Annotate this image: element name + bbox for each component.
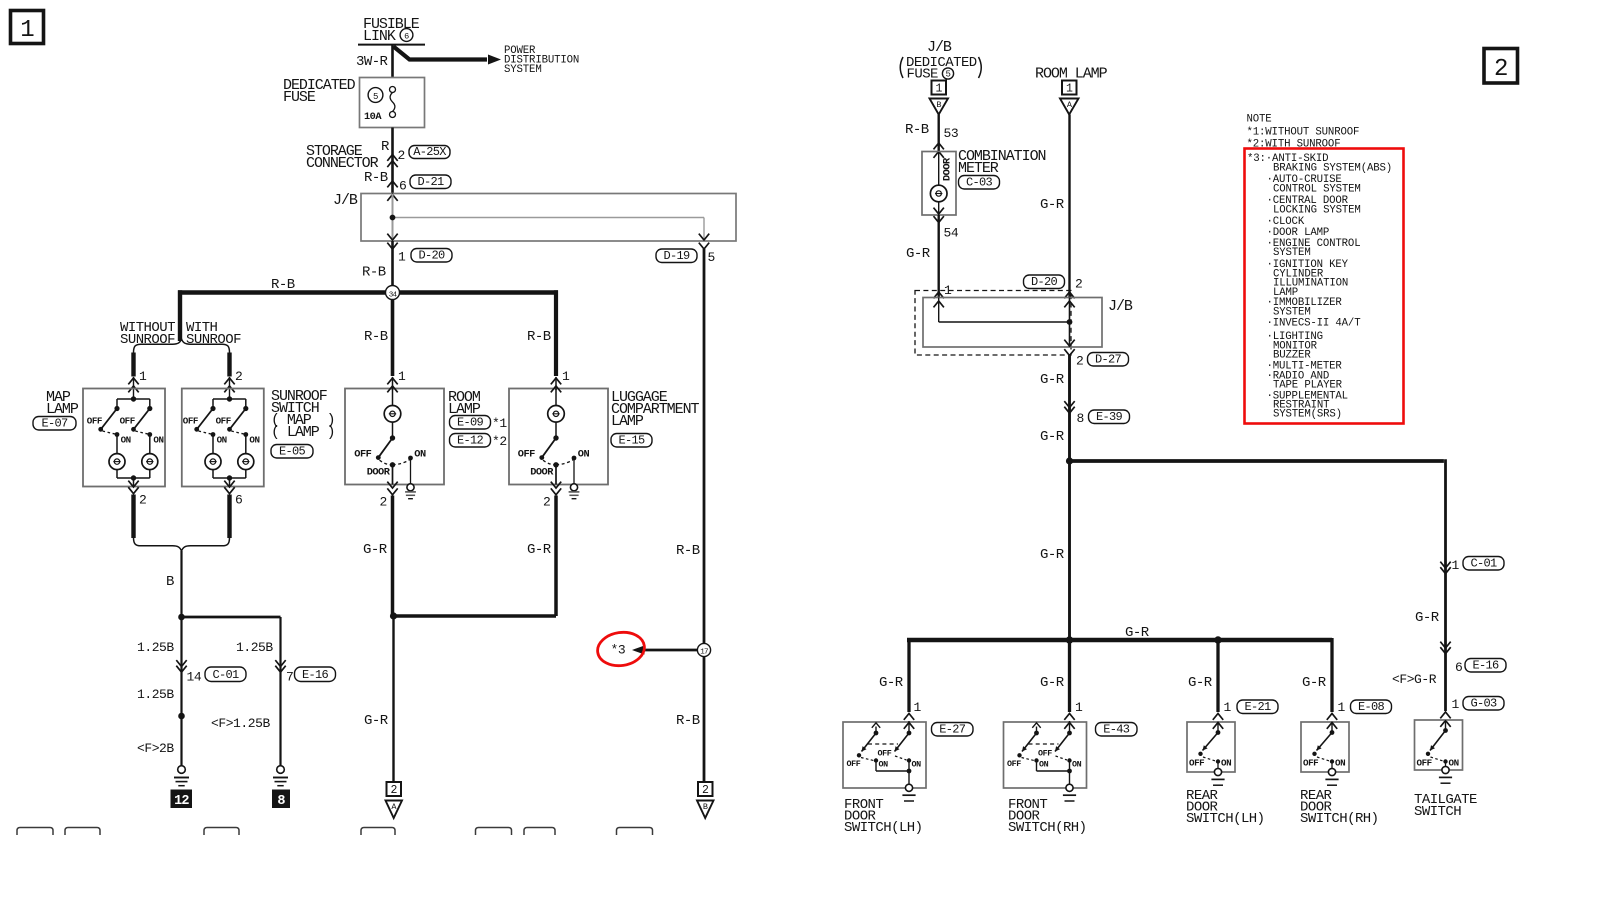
svg-text:SWITCH(LH): SWITCH(LH) bbox=[844, 820, 923, 836]
wire label F 1.25B bbox=[211, 716, 270, 731]
connector E-08 capsule bbox=[1351, 700, 1392, 714]
wire G-R to tailgate bbox=[1070, 459, 1446, 711]
svg-text:1: 1 bbox=[935, 83, 942, 96]
fuse element bbox=[390, 87, 396, 118]
svg-text:NOTE: NOTE bbox=[1247, 114, 1272, 126]
room lamp pin 2 bbox=[380, 495, 387, 510]
svg-text:G-R: G-R bbox=[1040, 197, 1065, 213]
ground point tag 12 bbox=[171, 790, 193, 810]
junction dot front RH bbox=[1066, 636, 1073, 643]
tailgate entry chevrons bbox=[1440, 712, 1450, 727]
ground point tag 8 bbox=[272, 790, 290, 810]
svg-text:J/B: J/B bbox=[927, 39, 952, 56]
svg-text:ON: ON bbox=[249, 435, 259, 446]
meter entry chevrons bbox=[934, 143, 944, 158]
svg-text:B: B bbox=[166, 574, 174, 590]
svg-text:2: 2 bbox=[380, 495, 387, 510]
svg-text:SYSTEM(SRS): SYSTEM(SRS) bbox=[1273, 408, 1342, 420]
room lamp label bbox=[448, 389, 481, 418]
svg-text:J/B: J/B bbox=[1108, 298, 1133, 315]
wire label G-R rear LH bbox=[1188, 675, 1213, 691]
svg-text:34: 34 bbox=[389, 291, 398, 299]
stub wire to map lamp bbox=[131, 353, 135, 377]
rear door LH pin 1 bbox=[1224, 700, 1232, 715]
svg-text:1: 1 bbox=[20, 17, 34, 44]
wire G-R room lamp down bbox=[391, 496, 395, 617]
svg-text:R-B: R-B bbox=[364, 329, 388, 345]
svg-text:DOOR: DOOR bbox=[942, 157, 954, 181]
partial connector box e bbox=[476, 828, 512, 836]
svg-text:SUNROOF: SUNROOF bbox=[186, 332, 241, 348]
connector E-43 capsule bbox=[1096, 723, 1138, 737]
wire label G-R 3 bbox=[1040, 547, 1065, 563]
inter-sheet tag 2 B bbox=[697, 782, 714, 818]
connector G-03 pin 1 bbox=[1452, 697, 1505, 713]
svg-text:G-R: G-R bbox=[363, 542, 388, 558]
inter-sheet tag 2 A bbox=[386, 782, 403, 818]
map lamp switches and bulbs bbox=[87, 396, 164, 486]
wire R-B junction17 down bbox=[703, 657, 706, 781]
svg-text:1: 1 bbox=[1338, 700, 1346, 715]
svg-text:2: 2 bbox=[390, 784, 397, 797]
room lamp pin 1 bbox=[398, 369, 406, 384]
fusible link 6 label bbox=[358, 16, 425, 45]
svg-text:54: 54 bbox=[944, 226, 959, 241]
luggage compartment lamp box bbox=[509, 389, 608, 485]
svg-text:<F>1.25B: <F>1.25B bbox=[211, 716, 270, 731]
svg-text:ON: ON bbox=[121, 435, 131, 446]
note star3 list bbox=[1247, 153, 1392, 420]
room lamp feed label bbox=[1035, 66, 1108, 83]
JB right right entry chevrons bbox=[1064, 292, 1074, 307]
ground left bbox=[174, 766, 189, 786]
pin 53 bbox=[944, 126, 959, 141]
partial connector box g bbox=[617, 828, 653, 836]
svg-text:5: 5 bbox=[373, 92, 378, 102]
svg-text:B: B bbox=[936, 100, 941, 110]
front door switch RH contacts bbox=[1007, 723, 1082, 801]
wire label G-R feed bbox=[1040, 197, 1065, 213]
svg-text:G-R: G-R bbox=[1188, 675, 1213, 691]
svg-text:A-25X: A-25X bbox=[413, 145, 446, 159]
front door switch RH box bbox=[1004, 722, 1087, 788]
connector D-27 pin 2 bbox=[1064, 340, 1128, 369]
svg-text:*1: *1 bbox=[492, 416, 507, 431]
ground right bbox=[273, 766, 288, 786]
svg-text:LAMP: LAMP bbox=[611, 413, 644, 430]
svg-text:5: 5 bbox=[708, 250, 715, 265]
without sunroof label bbox=[120, 320, 175, 348]
map lamp box bbox=[83, 389, 165, 487]
svg-text:BRAKING SYSTEM(ABS): BRAKING SYSTEM(ABS) bbox=[1273, 162, 1392, 174]
svg-text:<F>2B: <F>2B bbox=[137, 741, 174, 756]
triangle A from sheet bbox=[1060, 99, 1079, 115]
svg-text:G-R: G-R bbox=[1040, 675, 1065, 691]
sunroof switch switches and bulbs bbox=[183, 396, 260, 486]
junction dot rear LH bbox=[1214, 636, 1221, 643]
svg-text:10A: 10A bbox=[364, 111, 382, 123]
rear door switch LH label bbox=[1186, 788, 1265, 827]
rear door switch LH contacts bbox=[1189, 722, 1231, 785]
svg-text:OFF: OFF bbox=[878, 749, 892, 759]
J/B junction block box left bbox=[361, 194, 736, 242]
rear door switch RH label bbox=[1300, 788, 1379, 827]
svg-text:OFF: OFF bbox=[120, 416, 135, 427]
svg-text:1: 1 bbox=[914, 700, 922, 715]
svg-text:R-B: R-B bbox=[364, 170, 388, 186]
pin 1 map lamp bbox=[139, 369, 147, 384]
J/B left internal wiring bbox=[387, 194, 704, 241]
pin 54 bbox=[944, 226, 959, 241]
svg-text:G-R: G-R bbox=[879, 675, 904, 691]
entry chevrons map lamp bbox=[128, 377, 138, 399]
svg-text:ON: ON bbox=[912, 760, 922, 770]
svg-text:SWITCH(RH): SWITCH(RH) bbox=[1300, 811, 1379, 827]
wire label 1.25B left bbox=[137, 640, 174, 655]
combination meter internals bbox=[930, 152, 953, 215]
svg-text:E-05: E-05 bbox=[279, 445, 306, 459]
connector E-21 capsule bbox=[1237, 700, 1278, 714]
svg-text:*1:WITHOUT SUNROOF: *1:WITHOUT SUNROOF bbox=[1247, 127, 1360, 139]
svg-text:1: 1 bbox=[1075, 700, 1083, 715]
room lamp entry chevrons bbox=[387, 377, 397, 392]
note line 1 bbox=[1247, 127, 1360, 139]
wire B bbox=[180, 551, 182, 617]
wire D-20 to junction 34 bbox=[391, 241, 394, 286]
svg-text:C-03: C-03 bbox=[966, 176, 993, 190]
svg-text:ON: ON bbox=[1039, 760, 1049, 770]
stub below map lamp bbox=[131, 495, 135, 539]
svg-text:G-R: G-R bbox=[906, 246, 931, 262]
map lamp exit chevrons bbox=[128, 481, 146, 508]
svg-text:8: 8 bbox=[1077, 411, 1084, 426]
J/B right internal wiring bbox=[939, 298, 1073, 348]
connector A-25X pin 2 bbox=[387, 145, 450, 167]
svg-text:R: R bbox=[381, 139, 390, 155]
svg-text:D-19: D-19 bbox=[663, 249, 690, 263]
svg-text:ON: ON bbox=[1449, 758, 1459, 769]
svg-text:2: 2 bbox=[398, 148, 405, 163]
svg-text:ON: ON bbox=[414, 448, 426, 460]
svg-text:OFF: OFF bbox=[1038, 749, 1052, 759]
tailgate switch contacts bbox=[1417, 720, 1459, 783]
svg-text:2: 2 bbox=[139, 493, 146, 508]
wire G-R luggage down bbox=[554, 496, 558, 617]
svg-text:E-27: E-27 bbox=[939, 723, 966, 737]
svg-text:7: 7 bbox=[286, 670, 293, 685]
svg-text:SYSTEM: SYSTEM bbox=[1273, 306, 1311, 318]
wire label G-R front LH bbox=[879, 675, 904, 691]
svg-text:OFF: OFF bbox=[183, 416, 198, 427]
note reference *3 bbox=[611, 643, 626, 658]
luggage lamp label bbox=[611, 389, 700, 430]
J/B label left bbox=[333, 192, 358, 209]
svg-text:SUNROOF: SUNROOF bbox=[120, 332, 175, 348]
tailgate switch box bbox=[1415, 720, 1463, 770]
stub below sunroof switch bbox=[227, 495, 231, 539]
tailgate switch label bbox=[1414, 792, 1477, 820]
luggage lamp entry chevrons bbox=[551, 377, 561, 392]
svg-text:OFF: OFF bbox=[1417, 758, 1432, 769]
room lamp exit chevrons bbox=[387, 482, 397, 495]
svg-text:DOOR: DOOR bbox=[367, 467, 391, 479]
svg-text:1: 1 bbox=[1224, 700, 1232, 715]
luggage lamp exit chevrons bbox=[551, 482, 561, 495]
connector E-16 pin 7 bbox=[275, 660, 335, 684]
sunroof switch box bbox=[182, 389, 264, 487]
svg-text:R-B: R-B bbox=[362, 265, 386, 281]
connector E-27 capsule bbox=[932, 723, 974, 737]
tag 1 room lamp bbox=[1062, 81, 1077, 96]
room lamp bulb and switch bbox=[354, 389, 426, 499]
front door LH entry chevrons bbox=[904, 714, 914, 734]
svg-text:G-R: G-R bbox=[527, 542, 552, 558]
front door switch RH label bbox=[1008, 797, 1087, 836]
svg-text:5: 5 bbox=[945, 70, 950, 80]
front door switch LH box bbox=[843, 722, 926, 788]
svg-text:ON: ON bbox=[1221, 758, 1231, 769]
svg-text:1.25B: 1.25B bbox=[137, 640, 174, 655]
junction dot G-R bbox=[390, 612, 397, 619]
junction dot F2B bbox=[178, 713, 185, 720]
red ellipse highlight bbox=[595, 629, 646, 668]
connector C-03 capsule bbox=[959, 176, 1000, 190]
connector C-01 pin 14 bbox=[176, 660, 246, 684]
note title bbox=[1247, 114, 1272, 126]
svg-text:E-09: E-09 bbox=[457, 416, 484, 430]
fuse rating 10A bbox=[364, 111, 382, 123]
wire label R-B 2 bbox=[362, 265, 386, 281]
svg-text:D-20: D-20 bbox=[418, 249, 445, 263]
dedicated fuse box bbox=[360, 78, 425, 128]
svg-text:1: 1 bbox=[398, 369, 406, 384]
wire label G-R bus bbox=[1125, 625, 1150, 641]
wire R-B junction 34 to room lamp bbox=[391, 300, 395, 377]
svg-text:·INVECS-II 4A/T: ·INVECS-II 4A/T bbox=[1267, 318, 1362, 330]
pin 1 JB left entry bbox=[944, 283, 952, 298]
svg-text:14: 14 bbox=[187, 670, 202, 685]
svg-text:G-R: G-R bbox=[1040, 547, 1065, 563]
svg-text:C-01: C-01 bbox=[1470, 557, 1497, 571]
entry chevrons sunroof switch bbox=[224, 377, 234, 399]
svg-text:2: 2 bbox=[1076, 354, 1083, 369]
connector D-20 pin 1 bbox=[387, 234, 452, 265]
svg-text:G-03: G-03 bbox=[1470, 697, 1497, 711]
wire label B bbox=[166, 574, 174, 590]
wire G-R meter to JB bbox=[938, 215, 940, 298]
merge brace bottom bbox=[134, 538, 230, 552]
svg-text:OFF: OFF bbox=[518, 448, 535, 460]
svg-text:OFF: OFF bbox=[847, 759, 861, 769]
svg-text:1: 1 bbox=[1452, 558, 1460, 573]
svg-text:ON: ON bbox=[1335, 758, 1345, 769]
partial connector box a bbox=[17, 828, 53, 836]
wire label R-B right bbox=[676, 713, 700, 729]
storage connector label bbox=[306, 143, 379, 172]
svg-text:1.25B: 1.25B bbox=[236, 640, 273, 655]
connector D-20 right bbox=[1024, 275, 1083, 292]
svg-text:E-43: E-43 bbox=[1103, 723, 1130, 737]
svg-text:E-07: E-07 bbox=[41, 417, 68, 431]
svg-text:ON: ON bbox=[153, 435, 163, 446]
wire label R bbox=[381, 139, 390, 155]
svg-text:6: 6 bbox=[404, 32, 409, 42]
svg-text:LINK: LINK bbox=[363, 28, 396, 45]
front door switch LH label bbox=[844, 797, 923, 836]
connector D-21 pin 6 bbox=[387, 175, 451, 194]
wire R-B D-19 to junction 17 bbox=[703, 249, 706, 644]
svg-text:E-08: E-08 bbox=[1358, 700, 1385, 714]
map lamp label bbox=[46, 389, 79, 418]
partial connector box b bbox=[65, 828, 100, 836]
svg-text:1: 1 bbox=[1066, 83, 1073, 96]
svg-text:C-01: C-01 bbox=[212, 668, 239, 682]
svg-text:2: 2 bbox=[1494, 56, 1507, 83]
svg-text:6: 6 bbox=[399, 179, 406, 194]
wire label 1.25B right bbox=[236, 640, 273, 655]
svg-text:2: 2 bbox=[235, 369, 242, 384]
wire label R-B bbox=[364, 170, 388, 186]
svg-text:1: 1 bbox=[1452, 697, 1460, 712]
connector E-05 capsule bbox=[271, 445, 313, 459]
svg-text:CONTROL SYSTEM: CONTROL SYSTEM bbox=[1273, 184, 1361, 196]
svg-text:OFF: OFF bbox=[216, 416, 231, 427]
rear door switch RH contacts bbox=[1303, 722, 1345, 785]
svg-text:METER: METER bbox=[958, 160, 999, 177]
svg-text:G-R: G-R bbox=[1415, 610, 1440, 626]
wire label G-R front RH bbox=[1040, 675, 1065, 691]
pin 2 sunroof switch bbox=[235, 369, 242, 384]
svg-text:R-B: R-B bbox=[676, 713, 700, 729]
svg-text:1.25B: 1.25B bbox=[137, 687, 174, 702]
svg-text:LOCKING SYSTEM: LOCKING SYSTEM bbox=[1273, 205, 1361, 217]
wire label G-R tailgate bbox=[1415, 610, 1440, 626]
svg-text:E-16: E-16 bbox=[1472, 659, 1499, 673]
connector E-15 capsule bbox=[611, 434, 652, 448]
svg-text:SWITCH(RH): SWITCH(RH) bbox=[1008, 820, 1087, 836]
svg-text:53: 53 bbox=[944, 126, 959, 141]
wire branch to E-16 ground bbox=[182, 617, 281, 766]
svg-text:SYSTEM: SYSTEM bbox=[504, 64, 542, 76]
tag 1 dedicated fuse bbox=[932, 81, 947, 96]
arrow to note 3 bbox=[632, 646, 697, 655]
svg-text:2: 2 bbox=[1075, 277, 1082, 292]
svg-text:ON: ON bbox=[217, 435, 227, 446]
wire G-R room lamp feed bbox=[1068, 115, 1070, 298]
svg-text:R-B: R-B bbox=[527, 329, 551, 345]
arrow to power distribution system bbox=[394, 47, 502, 65]
svg-text:OFF: OFF bbox=[87, 416, 102, 427]
split brace top bbox=[134, 339, 230, 353]
svg-text:B: B bbox=[703, 802, 708, 812]
G-R door switch bus bbox=[907, 638, 1332, 712]
wire label R-B room branch bbox=[364, 329, 388, 345]
with sunroof label bbox=[186, 320, 241, 348]
power distribution system label bbox=[504, 45, 579, 76]
JB right left entry chevrons bbox=[934, 292, 944, 307]
partial connector box f bbox=[524, 828, 555, 836]
svg-text:FUSE: FUSE bbox=[283, 89, 316, 106]
svg-text:1: 1 bbox=[139, 369, 147, 384]
J/B right label bbox=[1108, 298, 1133, 315]
junction dot tailgate branch bbox=[1066, 457, 1073, 464]
wire label G-R room bbox=[363, 542, 388, 558]
wire label G-R 2 bbox=[1040, 429, 1065, 445]
wire G-R front RH down bbox=[1068, 640, 1071, 712]
svg-text:3W-R: 3W-R bbox=[356, 54, 389, 70]
svg-text:OFF: OFF bbox=[1189, 758, 1204, 769]
svg-text:G-R: G-R bbox=[1040, 372, 1065, 388]
svg-text:17: 17 bbox=[700, 649, 708, 657]
junction 17 bbox=[697, 643, 710, 656]
wire label R-B mid bbox=[676, 543, 700, 559]
svg-text:ON: ON bbox=[1072, 760, 1082, 770]
svg-text:G-R: G-R bbox=[1040, 429, 1065, 445]
wire 3W-R fusible link to fuse bbox=[391, 45, 394, 78]
svg-text:G-R: G-R bbox=[1302, 675, 1327, 691]
wire label R-B bus bbox=[271, 277, 295, 293]
svg-text:1: 1 bbox=[398, 250, 406, 265]
rear door RH entry chevrons bbox=[1327, 714, 1337, 729]
luggage lamp bulb and switch bbox=[518, 389, 590, 499]
wire label R-B luggage branch bbox=[527, 329, 551, 345]
R-B bus bbox=[178, 290, 558, 376]
svg-text:E-15: E-15 bbox=[618, 434, 645, 448]
diagram sheet marker 2 bbox=[1484, 49, 1518, 84]
wire label 1.25B lower bbox=[137, 687, 174, 702]
wire label G-R lower left bbox=[364, 713, 389, 729]
svg-text:2: 2 bbox=[702, 784, 709, 797]
wire G-R rear LH down bbox=[1216, 640, 1219, 712]
svg-text:*2: *2 bbox=[492, 434, 507, 449]
svg-text:( LAMP ): ( LAMP ) bbox=[271, 424, 335, 441]
junction dot B bbox=[178, 614, 185, 621]
svg-text:SYSTEM: SYSTEM bbox=[1273, 247, 1311, 259]
svg-text:<F>G-R: <F>G-R bbox=[1392, 672, 1437, 687]
note red box bbox=[1245, 149, 1404, 424]
svg-text:OFF: OFF bbox=[1303, 758, 1318, 769]
wire G-R luggage join bbox=[393, 614, 557, 617]
triangle B from sheet bbox=[930, 99, 949, 115]
front door switch LH pin 1 bbox=[914, 700, 922, 715]
wire label G-R luggage bbox=[527, 542, 552, 558]
svg-text:ON: ON bbox=[578, 448, 590, 460]
svg-text:G-R: G-R bbox=[1125, 625, 1150, 641]
svg-text:J/B: J/B bbox=[333, 192, 358, 209]
luggage lamp pin 2 bbox=[543, 495, 550, 510]
svg-text:LAMP: LAMP bbox=[46, 401, 79, 418]
fuse number 5 bbox=[368, 88, 383, 103]
svg-text:R-B: R-B bbox=[271, 277, 295, 293]
connector D-19 pin 5 bbox=[656, 234, 715, 265]
front door switch LH contacts bbox=[847, 723, 922, 801]
svg-text:E-21: E-21 bbox=[1244, 700, 1271, 714]
svg-text:D-20: D-20 bbox=[1031, 275, 1058, 289]
stub wire to sunroof switch bbox=[227, 353, 231, 377]
svg-text:OFF: OFF bbox=[354, 448, 371, 460]
rear door RH pin 1 bbox=[1338, 700, 1346, 715]
connector E-12 capsule bbox=[450, 434, 507, 450]
wire B to C-01 ground bbox=[180, 617, 182, 766]
connector E-39 pin 8 bbox=[1064, 401, 1129, 426]
wire R fuse to J/B bbox=[391, 128, 394, 194]
sunroof switch label bbox=[271, 388, 335, 441]
svg-text:E-39: E-39 bbox=[1096, 410, 1123, 424]
partial connector box d bbox=[361, 828, 395, 836]
svg-text:12: 12 bbox=[174, 794, 189, 809]
svg-text:OFF: OFF bbox=[1007, 759, 1021, 769]
partial connector box c bbox=[204, 828, 239, 836]
